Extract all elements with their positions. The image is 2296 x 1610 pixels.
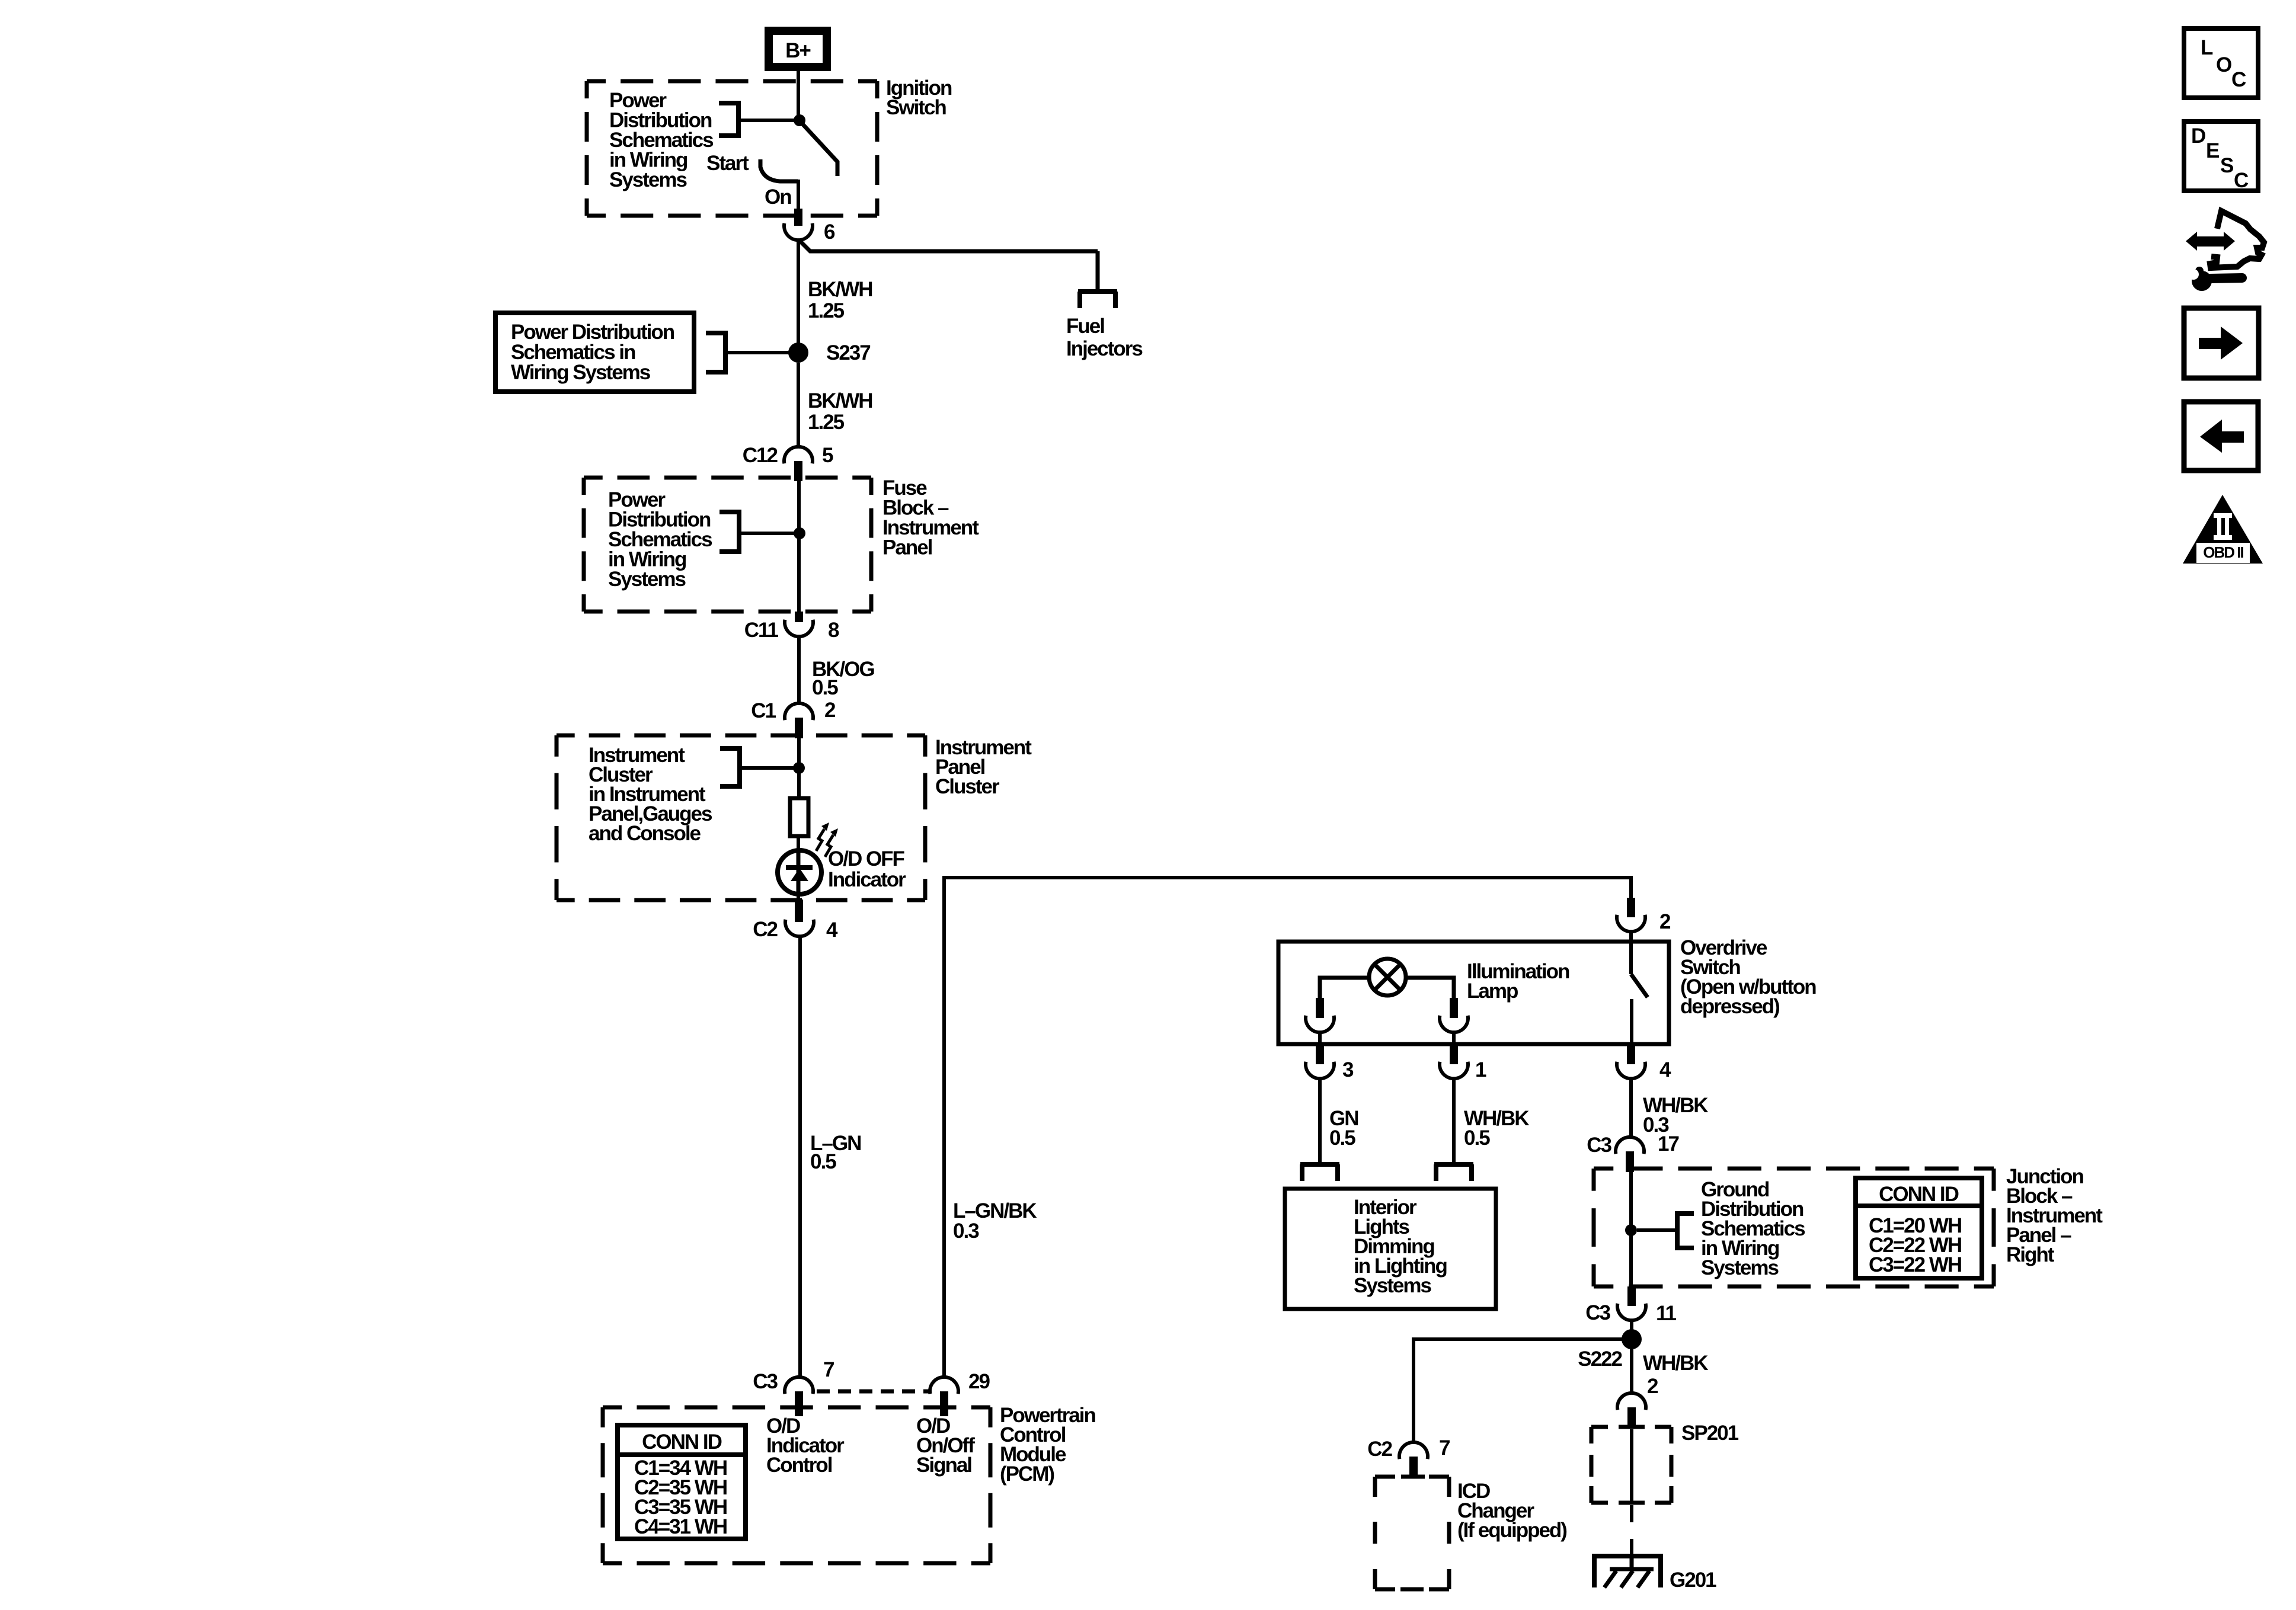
svg-text:C: C — [2234, 169, 2249, 192]
node ground dist junction — [1625, 1224, 1637, 1236]
LED light arrows — [816, 822, 838, 857]
connector C2 pin — [795, 900, 803, 922]
connector C3 pin11 socket — [1617, 1304, 1646, 1320]
label C3 pin17 left — [1587, 1134, 1611, 1157]
connector ICD C2 pin7 socket — [1399, 1442, 1428, 1459]
svg-text:7: 7 — [823, 1358, 834, 1381]
label O/D Indicator Control — [766, 1414, 845, 1477]
svg-text:3: 3 — [1342, 1058, 1354, 1081]
svg-text:BK/WH: BK/WH — [808, 389, 872, 412]
icon forward arrow box — [2184, 308, 2259, 378]
svg-text:0.5: 0.5 — [1464, 1126, 1490, 1150]
wire branch to fuel injectors — [800, 241, 1098, 290]
svg-text:CONN ID: CONN ID — [1879, 1183, 1959, 1206]
label BK/OG 0.5 — [812, 658, 875, 699]
bracket power distribution ref — [706, 331, 789, 375]
svg-text:Systems: Systems — [1701, 1256, 1779, 1279]
svg-text:On: On — [765, 185, 791, 209]
wire 6 to S237 — [797, 239, 800, 345]
label C1 — [751, 699, 776, 722]
connector overdrive pin2 pin — [1627, 898, 1635, 917]
wire pin3 down — [1318, 1078, 1322, 1163]
splice S222 — [1622, 1329, 1642, 1349]
label SP201 — [1681, 1422, 1739, 1445]
svg-text:17: 17 — [1658, 1132, 1678, 1156]
label O/D OFF Indicator — [828, 847, 906, 891]
connector C3 pin11 pin — [1627, 1286, 1636, 1306]
ignition switch internal text — [609, 89, 714, 191]
label S222 — [1578, 1347, 1622, 1371]
label C2 pin 4 — [826, 918, 838, 942]
label Start — [706, 152, 749, 175]
label pin 4 — [1659, 1058, 1671, 1081]
svg-text:C3: C3 — [1585, 1301, 1610, 1324]
junction block CONN ID table — [1856, 1178, 1982, 1278]
wire C2 to C3 pin7 — [798, 936, 802, 1378]
svg-text:Cluster: Cluster — [935, 775, 1000, 798]
svg-text:Systems: Systems — [1354, 1274, 1432, 1297]
splice S237 — [788, 343, 808, 363]
LED O/D OFF indicator — [778, 850, 821, 894]
dashed link C3 connectors — [817, 1390, 929, 1394]
interior lights right fork — [1434, 1164, 1473, 1181]
label WH/BK 2 — [1643, 1352, 1708, 1398]
SP201 dashed box — [1591, 1427, 1671, 1503]
svg-text:8: 8 — [828, 619, 839, 642]
label pin 1 — [1475, 1058, 1486, 1081]
illumination lamp — [1369, 959, 1406, 996]
label pin 5 — [822, 444, 833, 467]
wire S222 branch to ICD — [1414, 1339, 1632, 1443]
svg-text:E: E — [2206, 139, 2219, 162]
connector pin29 socket — [930, 1377, 958, 1394]
label C12 — [743, 444, 778, 467]
svg-text:C3=22 WH: C3=22 WH — [1869, 1253, 1961, 1276]
icon vehicle with arrow and wrench — [2186, 211, 2264, 291]
lamp left socket — [1306, 998, 1334, 1032]
svg-text:S: S — [2220, 154, 2233, 177]
interior lights dimming box — [1285, 1189, 1496, 1309]
label Fuel Injectors — [1066, 315, 1143, 360]
ground G201 symbol — [1594, 1556, 1661, 1587]
label C3 left — [753, 1370, 778, 1393]
svg-text:C11: C11 — [744, 619, 779, 642]
label pin 3 — [1342, 1058, 1354, 1081]
label L-GN 0.5 — [810, 1132, 861, 1173]
svg-text:2: 2 — [1659, 910, 1671, 933]
svg-text:Switch: Switch — [886, 96, 946, 119]
connector C2 socket — [785, 920, 814, 936]
svg-text:0.5: 0.5 — [812, 676, 838, 699]
bracket fuse block text ref — [720, 510, 795, 554]
svg-text:0.5: 0.5 — [810, 1150, 836, 1173]
ICD changer dashed box — [1375, 1477, 1449, 1589]
svg-text:11: 11 — [1656, 1302, 1677, 1325]
node fuse block junction — [794, 527, 805, 539]
label Ground Distribution Schematics — [1701, 1178, 1805, 1279]
svg-text:5: 5 — [822, 444, 833, 467]
svg-text:depressed): depressed) — [1680, 995, 1779, 1018]
connector C3 pin7 pin — [795, 1391, 803, 1416]
wire C11 to C1 — [797, 636, 801, 704]
label Fuse Block Instrument Panel — [882, 476, 979, 559]
label pin 11 — [1656, 1302, 1677, 1325]
svg-text:S237: S237 — [826, 341, 870, 364]
svg-text:4: 4 — [826, 918, 838, 942]
svg-text:Injectors: Injectors — [1066, 337, 1143, 360]
svg-text:S222: S222 — [1578, 1347, 1622, 1371]
label ICD C2 — [1367, 1438, 1392, 1461]
wire fuse junction down — [797, 481, 801, 612]
svg-text:6: 6 — [824, 220, 835, 244]
svg-text:SP201: SP201 — [1681, 1422, 1739, 1445]
svg-text:C1: C1 — [751, 699, 776, 722]
wire pin4 down — [1629, 1078, 1633, 1138]
svg-text:Lamp: Lamp — [1467, 980, 1518, 1003]
wire C3 pin11 to S222 — [1630, 1320, 1633, 1339]
wire C3 pin17 to C3 pin11 — [1629, 1172, 1633, 1286]
ignition switch blade — [801, 123, 837, 176]
label C3 pin11 left — [1585, 1301, 1610, 1324]
svg-text:0.5: 0.5 — [1329, 1126, 1355, 1150]
connector pin3 — [1306, 1045, 1334, 1078]
instrument panel cluster dashed box — [557, 735, 925, 900]
node instrument cluster junction — [793, 762, 805, 774]
svg-text:1.25: 1.25 — [808, 299, 845, 322]
label Overdrive Switch — [1680, 936, 1816, 1018]
connector overdrive pin2 socket — [1617, 915, 1645, 932]
svg-text:(If equipped): (If equipped) — [1457, 1519, 1566, 1542]
connector C3 pin7 socket — [785, 1377, 813, 1394]
interior lights left fork — [1300, 1164, 1339, 1181]
wire lamp left leg — [1320, 978, 1369, 999]
label G201 — [1670, 1569, 1716, 1592]
connector WH/BK2 pin — [1627, 1407, 1636, 1426]
wire S237 to C12 — [797, 363, 800, 448]
wire through SP201 — [1630, 1429, 1633, 1501]
connector C12 socket — [784, 447, 813, 463]
connector ICD C2 pin7 pin — [1409, 1457, 1418, 1477]
wire resistor to LED — [797, 836, 800, 852]
label On — [765, 185, 791, 209]
connector C11 pin — [795, 612, 803, 622]
svg-text:0.3: 0.3 — [953, 1219, 979, 1243]
connector C3 pin17 pin — [1626, 1151, 1634, 1172]
instrument cluster internal text — [589, 744, 712, 845]
icon back arrow box — [2184, 402, 2258, 470]
power node B+ box — [769, 31, 827, 67]
svg-text:29: 29 — [968, 1370, 990, 1393]
svg-text:C2: C2 — [753, 918, 778, 941]
svg-text:Start: Start — [706, 152, 749, 175]
label pin 8 — [828, 619, 839, 642]
label C2 — [753, 918, 778, 941]
label pin 7 — [823, 1358, 834, 1381]
svg-text:C2: C2 — [1367, 1438, 1392, 1461]
label S237 — [826, 341, 870, 364]
PCM CONN ID table — [618, 1425, 746, 1539]
wire lamp legs to box edge — [1320, 1032, 1454, 1044]
start contact arc — [760, 159, 798, 181]
connector C12 pin — [794, 461, 802, 481]
svg-text:C3: C3 — [753, 1370, 778, 1393]
svg-text:Indicator: Indicator — [828, 868, 906, 891]
wire pin1 down — [1452, 1078, 1456, 1163]
svg-text:Right: Right — [2006, 1243, 2055, 1266]
label ICD Changer — [1457, 1480, 1566, 1542]
svg-text:4: 4 — [1659, 1058, 1671, 1081]
node ignition switch junction — [794, 114, 805, 126]
svg-text:Panel: Panel — [882, 536, 932, 559]
svg-text:O: O — [2216, 53, 2231, 76]
label BK/WH 1.25 lower — [808, 389, 872, 434]
label Instrument Panel Cluster — [935, 736, 1032, 798]
PCM dashed box — [603, 1407, 990, 1563]
connector 6 pin — [794, 209, 802, 226]
SP201 tick top — [1619, 1425, 1645, 1429]
label Illumination Lamp — [1467, 960, 1569, 1003]
wire to overdrive pin2 — [1629, 876, 1633, 898]
connector WH/BK2 socket — [1617, 1393, 1646, 1410]
label C11 — [744, 619, 779, 642]
svg-text:CONN ID: CONN ID — [642, 1430, 722, 1454]
overdrive switch blade — [1631, 945, 1648, 997]
wire SP201 to ground — [1630, 1505, 1633, 1554]
svg-text:C3: C3 — [1587, 1134, 1611, 1157]
bracket ground dist ref — [1637, 1211, 1694, 1250]
ignition switch dashed box — [587, 81, 877, 216]
wire S222 to SP201 — [1630, 1349, 1633, 1394]
bracket instrument cluster ref — [720, 746, 797, 789]
svg-text:OBD II: OBD II — [2203, 543, 2243, 561]
wire pin2 into box — [1629, 932, 1633, 945]
label Junction Block Instrument Panel Right — [2006, 1165, 2103, 1266]
svg-text:WH/BK: WH/BK — [1643, 1352, 1708, 1375]
power distribution reference box — [495, 313, 694, 392]
connector 6 socket — [784, 223, 813, 240]
label Ignition Switch — [886, 76, 952, 119]
svg-text:1: 1 — [1475, 1058, 1486, 1081]
icon LOC box — [2184, 28, 2258, 98]
connector C1 pin — [795, 718, 803, 738]
label overdrive pin 2 — [1659, 910, 1671, 933]
fuse block dashed box — [584, 478, 871, 612]
svg-text:B+: B+ — [785, 39, 811, 62]
svg-text:C4=31 WH: C4=31 WH — [634, 1515, 727, 1538]
svg-text:2: 2 — [824, 699, 836, 722]
fuel injectors fork terminal — [1078, 292, 1117, 308]
overdrive illumination box — [1278, 942, 1669, 1044]
label Powertrain Control Module PCM — [1000, 1404, 1095, 1486]
svg-text:Systems: Systems — [609, 168, 687, 191]
svg-text:2: 2 — [1647, 1375, 1658, 1398]
lamp right socket — [1440, 998, 1468, 1032]
wire LED to C2 — [797, 894, 800, 901]
connector C3 pin17 socket — [1616, 1137, 1644, 1154]
icon DESC box — [2184, 121, 2258, 192]
svg-text:G201: G201 — [1670, 1569, 1716, 1592]
svg-text:O/D OFF: O/D OFF — [828, 847, 905, 870]
label ICD pin 7 — [1439, 1436, 1450, 1459]
resistor in cluster — [790, 798, 808, 836]
label WH/BK 0.5 — [1464, 1107, 1529, 1150]
svg-text:(PCM): (PCM) — [1000, 1462, 1054, 1486]
wire B+ to ignition switch — [797, 71, 800, 119]
connector pin4 — [1617, 1045, 1645, 1078]
svg-text:Control: Control — [766, 1454, 832, 1477]
icon OBD II triangle — [2183, 495, 2263, 564]
svg-text:Signal: Signal — [916, 1454, 971, 1477]
label WH/BK 0.3 — [1643, 1094, 1708, 1137]
svg-text:Systems: Systems — [608, 568, 686, 591]
svg-text:D: D — [2191, 124, 2205, 148]
wire pin29 riser — [942, 878, 1631, 1378]
label BK/WH 1.25 upper — [808, 278, 872, 322]
fuse block internal text — [608, 488, 712, 591]
svg-text:Wiring Systems: Wiring Systems — [511, 361, 651, 384]
label pin 17 — [1658, 1132, 1678, 1156]
label pin 6 — [824, 220, 835, 244]
svg-text:BK/WH: BK/WH — [808, 278, 872, 301]
connector C1 socket — [785, 703, 813, 720]
bracket ignition text ref — [719, 101, 795, 138]
label GN 0.5 — [1329, 1107, 1358, 1150]
label pin 29 — [968, 1370, 990, 1393]
SP201 tick bottom — [1619, 1501, 1645, 1505]
ground distribution dashed box — [1594, 1169, 1994, 1286]
overdrive switch lower contact — [1630, 999, 1633, 1045]
svg-text:Fuel: Fuel — [1066, 315, 1104, 338]
svg-text:L: L — [2201, 36, 2213, 59]
connector pin1 — [1440, 1045, 1468, 1078]
wire lamp right leg — [1406, 978, 1454, 999]
wire On contact to pin 6 — [797, 180, 800, 209]
svg-text:and Console: and Console — [589, 822, 701, 845]
label pin 2 — [824, 699, 836, 722]
svg-text:1.25: 1.25 — [808, 411, 845, 434]
svg-text:C: C — [2231, 68, 2246, 91]
svg-text:C12: C12 — [743, 444, 778, 467]
svg-text:7: 7 — [1439, 1436, 1450, 1459]
label O/D On/Off Signal — [916, 1414, 975, 1477]
connector C11 socket — [785, 620, 813, 636]
connector pin29 pin — [940, 1391, 948, 1416]
wire C1 to resistor — [797, 738, 801, 798]
label L-GN/BK 0.3 — [953, 1199, 1037, 1243]
